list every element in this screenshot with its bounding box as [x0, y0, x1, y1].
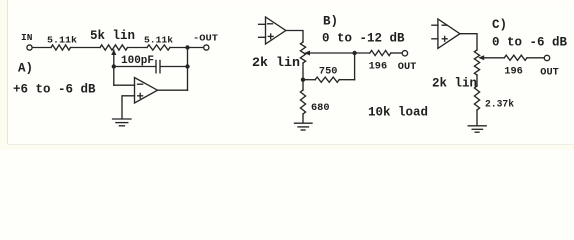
scan edge tint bottom: [0, 145, 574, 150]
wire U3 non-inverting input stub: [432, 38, 438, 40]
resistor 5.11k (input, circuit A): [51, 45, 71, 50]
wire feedback vertical: [187, 48, 189, 91]
pot 2k wiper arrow (circuit B): [304, 51, 310, 56]
svg-text:196: 196: [369, 60, 388, 72]
ground (circuit A): [113, 118, 131, 120]
wire R to OUT node: [170, 47, 204, 49]
svg-text:100pF: 100pF: [121, 55, 154, 67]
resistor 680 (circuit B): [300, 90, 305, 114]
wire R to pot 5k: [71, 47, 101, 49]
wire U3 inverting input stub: [432, 24, 438, 26]
svg-text:OUT: OUT: [540, 66, 559, 78]
wire R2.37k to ground: [476, 110, 478, 125]
node IN terminal (circuit A): [27, 45, 32, 50]
wire junction to R680: [302, 80, 304, 90]
svg-text:5k lin: 5k lin: [90, 29, 135, 43]
svg-text:5.11k: 5.11k: [47, 34, 77, 45]
svg-text:A): A): [18, 61, 33, 75]
svg-text:680: 680: [311, 102, 330, 114]
wire R196 to OUT: [391, 52, 402, 54]
potentiometer 2k lin element (circuit C): [474, 50, 479, 75]
svg-text:2k lin: 2k lin: [252, 56, 300, 70]
pot 2k wiper arrow (circuit C): [478, 55, 484, 60]
wire pot to R 5.11k output: [128, 47, 148, 49]
op-amp U2 plus pin mark: [268, 35, 273, 37]
scan edge tint top: [7, 0, 574, 5]
svg-text:10k load: 10k load: [368, 105, 428, 119]
wire op-amp output: [158, 89, 188, 91]
node wiper junction dot (circuit B): [352, 51, 356, 55]
capacitor 100pF plates: [155, 61, 157, 73]
wire R196 to OUT: [527, 57, 544, 59]
wire IN to R 5.11k: [32, 47, 51, 49]
wire wiper to node: [309, 52, 355, 54]
op-amp U3 (circuit C): [438, 19, 460, 48]
op-amp U1 (circuit A): [135, 78, 158, 104]
wire R680 to ground: [302, 114, 304, 123]
svg-text:2k lin: 2k lin: [432, 76, 477, 90]
op-amp U1 plus pin mark: [138, 95, 143, 97]
node pot-bottom junction dot (circuit B): [301, 78, 305, 82]
scan edge line vertical: [7, 0, 9, 144]
wire wiper to R196: [483, 57, 504, 59]
pot 5k wiper arrow: [111, 49, 116, 55]
scan edge tint left: [0, 0, 7, 150]
wire junction to capacitor: [114, 66, 156, 68]
ground (circuit B): [295, 122, 313, 124]
svg-text:IN: IN: [21, 32, 33, 43]
svg-text:+6 to -6 dB: +6 to -6 dB: [13, 83, 96, 97]
node wiper/cap junction dot: [112, 64, 116, 68]
node feedback/cap junction dot: [185, 64, 189, 68]
resistor 196 (circuit C): [504, 55, 527, 60]
wire non-inverting input to ground: [122, 96, 135, 119]
wire node down to 750: [354, 53, 356, 80]
op-amp U3 plus pin mark: [442, 38, 447, 40]
resistor 750 (circuit B): [315, 77, 339, 82]
svg-text:-OUT: -OUT: [193, 33, 218, 44]
resistor 2.37k (circuit C): [474, 86, 479, 110]
svg-text:C): C): [492, 18, 507, 32]
wire U2 inverting input stub: [259, 23, 266, 25]
svg-text:2.37k: 2.37k: [485, 99, 514, 111]
svg-text:196: 196: [504, 65, 523, 77]
wire U3 output to pot top: [460, 34, 477, 50]
ground (circuit C): [468, 125, 486, 127]
potentiometer 2k lin element (circuit B): [300, 42, 305, 63]
op-amp U2 minus pin mark: [268, 23, 273, 25]
scan edge line bottom: [8, 144, 574, 146]
potentiometer 5k lin element (circuit A): [100, 45, 128, 50]
wire R750 to vertical: [339, 79, 354, 81]
node -OUT terminal (circuit A): [204, 45, 209, 50]
op-amp U1 minus pin mark: [138, 83, 143, 85]
resistor 196 (circuit B): [370, 50, 391, 55]
node OUT terminal (circuit C): [544, 55, 549, 60]
op-amp U3 minus pin mark: [442, 24, 447, 26]
wire capacitor to feedback line: [160, 66, 187, 68]
node OUT terminal (circuit B): [402, 51, 407, 56]
wire pot bottom to R2.37k: [476, 75, 478, 86]
svg-text:750: 750: [319, 66, 338, 78]
wire inverting input: [114, 84, 135, 86]
wire U2 non-inverting input stub: [259, 36, 266, 38]
svg-text:0 to -6 dB: 0 to -6 dB: [492, 36, 568, 50]
wire pot bottom to R750: [303, 79, 315, 81]
svg-text:0 to -12 dB: 0 to -12 dB: [322, 32, 405, 46]
node OUT junction dot (circuit A): [185, 45, 189, 49]
svg-text:5.11k: 5.11k: [144, 34, 173, 45]
svg-text:B): B): [323, 15, 338, 29]
wire U2 output to pot top: [286, 31, 303, 43]
wire wiper down to inverting input: [113, 50, 115, 85]
svg-text:OUT: OUT: [398, 61, 417, 73]
wire pot bottom to junction: [302, 63, 304, 80]
wire node to R196: [355, 52, 370, 54]
op-amp U2 (circuit B): [266, 17, 286, 44]
resistor 5.11k (feedback side, circuit A): [147, 45, 170, 50]
